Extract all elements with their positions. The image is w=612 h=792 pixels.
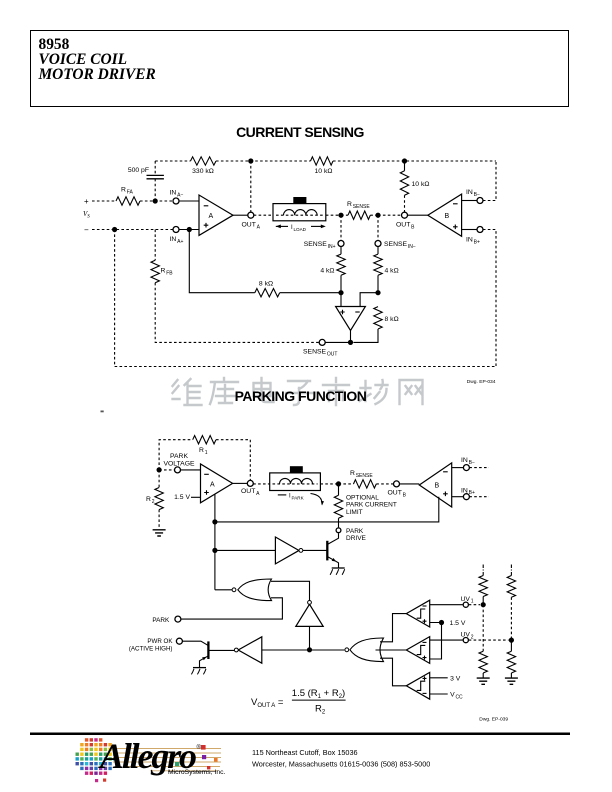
svg-text:4 kΩ: 4 kΩ: [385, 268, 399, 275]
op-amp B2: [419, 463, 451, 507]
title box: [30, 30, 569, 107]
ground divider right: [505, 678, 518, 684]
svg-text:OUTA: OUTA: [242, 222, 261, 231]
terminal IN_B+: [466, 227, 483, 246]
ground divider left: [477, 678, 490, 684]
node sense amp minus: [375, 290, 380, 295]
formula Vout: [251, 688, 346, 716]
Allegro logo mosaic: [76, 738, 117, 782]
wire to opamp A2 minus: [180, 469, 200, 471]
svg-text:Dwg. EP-039: Dwg. EP-039: [479, 717, 508, 723]
svg-text:1.5 V: 1.5 V: [450, 620, 466, 627]
terminal OUT_A: [242, 212, 261, 230]
svg-text:A: A: [210, 481, 215, 488]
svg-text:RSENSE: RSENSE: [347, 201, 370, 210]
wire load to limit node: [320, 481, 341, 486]
terminal OUT_B2: [388, 481, 407, 499]
resistor 8 k&#937; feedback: [353, 307, 398, 343]
wire INA- to opamp: [179, 200, 199, 202]
load inductor box: [273, 197, 326, 221]
svg-text:10 kΩ: 10 kΩ: [412, 181, 430, 188]
svg-text:PARK CURRENT: PARK CURRENT: [346, 502, 397, 509]
svg-text:Worcester, Massachusetts 01615: Worcester, Massachusetts 01615-0036 (508…: [252, 760, 430, 769]
svg-text:PWR OK: PWR OK: [147, 638, 173, 645]
resistor R_SENSE sensing: [341, 201, 378, 219]
svg-text:500 pF: 500 pF: [128, 167, 149, 174]
resistor 4 k&#937; right: [374, 246, 399, 292]
buffer up: [296, 601, 323, 627]
svg-text:A: A: [209, 213, 214, 220]
svg-text:4 kΩ: 4 kΩ: [320, 268, 334, 275]
terminal UV1: [461, 596, 474, 608]
svg-text:RSENSE: RSENSE: [350, 470, 373, 479]
label Dwg EP-039: [479, 717, 508, 723]
wire minus input jog: [360, 293, 378, 307]
terminal PARK: [152, 616, 181, 624]
wire plus input down: [340, 293, 342, 307]
wire inverter to Q1 base: [303, 549, 328, 551]
svg-text:PARK: PARK: [346, 528, 364, 535]
label I_LOAD with arrows: [276, 225, 326, 232]
label Dwg EP-034: [467, 379, 496, 385]
terminal PWR OK: [129, 638, 183, 652]
wire 8k to sense amp +: [280, 290, 344, 295]
footer rule: [30, 733, 570, 736]
svg-text:115 Northeast Cutoff, Box 1503: 115 Northeast Cutoff, Box 15036: [252, 748, 358, 757]
comparator UV3: [406, 672, 429, 699]
heading PARKING FUNCTION: [0, 388, 601, 404]
terminal OUT_B: [396, 212, 415, 230]
svg-text:INA+: INA+: [170, 236, 184, 245]
svg-text:VOUT A =: VOUT A =: [251, 697, 284, 709]
wire to OUT_B: [378, 214, 402, 216]
watermark weiku.com: [173, 378, 423, 405]
node sense right: [375, 213, 380, 218]
wire bottom rail: [115, 366, 496, 368]
wire 3V input: [430, 675, 461, 682]
title text 8958: [39, 37, 156, 83]
svg-text:RFA: RFA: [121, 187, 134, 196]
svg-text:OUTB: OUTB: [388, 490, 407, 499]
svg-text:−: −: [84, 226, 89, 235]
svg-text:OUTB: OUTB: [396, 222, 415, 231]
wire UV1 input: [430, 604, 463, 606]
wire OUTA feedback up: [250, 161, 252, 212]
svg-text:RFB: RFB: [161, 268, 174, 277]
terminal IN_B+2: [461, 487, 475, 499]
resistor R_1 feedback: [159, 436, 250, 481]
terminal SENSE_IN-: [375, 215, 416, 250]
wire to inverter V1: [215, 549, 276, 551]
wire UV2 dashed: [469, 639, 509, 641]
wire top rail left: [155, 160, 190, 162]
logo scattered squares: [175, 745, 218, 769]
resistor R_FA: [116, 187, 140, 206]
svg-text:®: ®: [197, 744, 202, 751]
wire B2 plus down to 1.5V line: [215, 497, 439, 522]
svg-text:OPTIONAL: OPTIONAL: [346, 495, 379, 502]
svg-text:VS: VS: [83, 210, 90, 219]
svg-text:1.5 (R1 + R2): 1.5 (R1 + R2): [292, 688, 345, 700]
svg-text:INB+: INB+: [461, 487, 475, 496]
svg-text:3 V: 3 V: [450, 675, 461, 682]
svg-text:SENSEOUT: SENSEOUT: [303, 349, 337, 358]
svg-text:IPARK: IPARK: [289, 494, 305, 501]
svg-text:R2: R2: [315, 704, 326, 716]
svg-text:MicroSystems, Inc.: MicroSystems, Inc.: [168, 769, 226, 776]
resistor R_2: [146, 470, 163, 529]
svg-text:LIMIT: LIMIT: [346, 509, 363, 516]
node UV2 divider: [509, 638, 514, 643]
node Vs- terminal: [84, 226, 89, 235]
wire OUTB2 to opamp B2: [399, 483, 419, 485]
transistor Q2: [200, 641, 209, 667]
wire RFA to node INA-: [140, 198, 173, 203]
stray mark: [101, 411, 104, 413]
wire UV2 input: [430, 639, 463, 641]
terminal PARK DRIVE: [336, 528, 366, 542]
label I_PARK with arrow: [278, 494, 324, 506]
wire opampB minus input: [462, 200, 478, 202]
ground below Q1: [330, 568, 345, 575]
svg-text:R1: R1: [199, 447, 208, 456]
resistor R_FB feedback: [151, 230, 319, 343]
divider resistor lower right: [507, 640, 515, 678]
svg-text:1.5 V: 1.5 V: [174, 494, 190, 501]
svg-text:8 kΩ: 8 kΩ: [259, 281, 273, 288]
transistor Q1: [327, 533, 338, 568]
svg-text:(ACTIVE HIGH): (ACTIVE HIGH): [129, 645, 173, 652]
node Vs label: [83, 210, 90, 219]
wire top rail mid: [216, 158, 311, 163]
op-amp B: [428, 194, 462, 236]
comparator UV1: [406, 600, 429, 627]
wire INB- to rail corner: [483, 161, 496, 201]
svg-text:DRIVE: DRIVE: [346, 535, 367, 542]
resistor 10 k&#937; vertical: [400, 161, 429, 212]
wire Q2 collector: [208, 649, 234, 651]
wire 1.5V node down: [212, 495, 217, 590]
svg-text:PARK: PARK: [170, 453, 188, 460]
svg-text:ILOAD: ILOAD: [291, 225, 307, 232]
wire left edge: [114, 230, 116, 367]
terminal OUT_A2: [241, 480, 260, 497]
wire B2 plus to INB+: [452, 496, 464, 498]
svg-text:INA−: INA−: [170, 190, 184, 199]
label 1.5V: [174, 494, 190, 501]
terminal SENSE_IN+: [304, 215, 344, 250]
load inductor box 2: [270, 466, 321, 490]
node park voltage junction: [157, 467, 162, 472]
svg-text:8 kΩ: 8 kΩ: [385, 316, 399, 323]
wire top rail right: [333, 158, 496, 163]
wire opamp A output: [233, 214, 248, 216]
resistor 4 k&#937; left: [320, 246, 345, 292]
terminal IN_A-: [170, 190, 184, 205]
comparator UV2: [406, 637, 429, 664]
wire PWROK to Q2: [182, 641, 208, 645]
terminal IN_A+: [170, 227, 184, 245]
resistor 10 k&#937; top: [311, 157, 334, 175]
svg-text:Dwg. EP-034: Dwg. EP-034: [467, 379, 496, 385]
svg-text:10 kΩ: 10 kΩ: [315, 168, 333, 175]
svg-text:INB−: INB−: [461, 457, 475, 466]
svg-text:B: B: [445, 213, 450, 220]
footer address: [252, 748, 430, 769]
OR gate 3-input: [345, 638, 384, 662]
wire opampB plus input: [462, 229, 478, 231]
wire INA+ to opamp: [179, 227, 199, 232]
wire NOR input top: [271, 581, 310, 600]
wire opamp A2 out: [233, 482, 248, 484]
wire NOR output: [215, 589, 232, 591]
svg-text:OUTA: OUTA: [241, 488, 260, 497]
wire B2 minus to INB-: [452, 467, 464, 469]
divider resistor upper left: [479, 565, 487, 605]
wire load to RSENSE node: [326, 213, 344, 218]
node UV1 divider: [481, 602, 486, 607]
wire Vs+ to RFA: [92, 200, 116, 202]
ground below Q2: [191, 668, 206, 675]
resistor R_SENSE park: [339, 470, 394, 488]
wire OUTA2 to load: [253, 483, 270, 485]
svg-text:R2: R2: [146, 496, 155, 505]
logo gold lines: [113, 749, 221, 771]
net 1.5V comparators: [430, 620, 466, 659]
terminal IN_B-: [466, 189, 483, 204]
wire INB+ down right edge: [483, 230, 496, 367]
resistor OPTIONAL PARK CURRENT LIMIT: [334, 484, 397, 528]
wire OUTB to opamp B: [407, 214, 427, 216]
svg-text:B: B: [435, 483, 440, 490]
terminal SENSE_OUT: [303, 339, 337, 357]
divider resistor upper right: [507, 565, 515, 641]
svg-text:SENSEIN+: SENSEIN+: [304, 241, 336, 250]
op-amp sense (down): [336, 307, 366, 331]
wire INB-2 dashes: [469, 467, 489, 469]
svg-text:INB+: INB+: [466, 237, 480, 246]
svg-text:INB−: INB−: [466, 189, 480, 198]
Allegro logo text: [98, 736, 226, 776]
resistor 8 k&#937; horizontal: [255, 281, 280, 297]
op-amp A2: [201, 464, 233, 503]
wire NOR input bottom: [181, 598, 283, 619]
wire INA+ down to 8k: [189, 230, 255, 293]
capacitor 500 pF: [128, 161, 164, 201]
NOR gate: [232, 579, 271, 601]
wire VCC input: [430, 692, 463, 701]
wire 1.5V to opamp: [191, 496, 201, 498]
wire comp1 out to OR: [380, 614, 406, 642]
terminal UV2: [461, 631, 474, 642]
heading CURRENT SENSING: [0, 124, 600, 140]
svg-text:SENSEIN−: SENSEIN−: [384, 241, 416, 250]
terminal PARK VOLTAGE: [159, 467, 180, 473]
wire inverter input: [262, 649, 311, 651]
svg-text:VOLTAGE: VOLTAGE: [163, 461, 195, 468]
node Vs+ terminal: [84, 197, 89, 206]
wire sense amp output: [325, 331, 353, 346]
label PARK VOLTAGE: [163, 453, 195, 468]
wire INB+2 dashes: [469, 496, 489, 498]
wire buffer input: [307, 626, 312, 652]
ground below R_2: [153, 530, 166, 536]
svg-text:PARK: PARK: [152, 617, 170, 624]
svg-text:VCC: VCC: [450, 692, 463, 701]
svg-text:330 kΩ: 330 kΩ: [192, 168, 214, 175]
divider resistor lower left: [479, 605, 487, 678]
svg-text:+: +: [84, 197, 89, 206]
resistor 330 k&#937;: [191, 157, 216, 175]
inverter left-facing: [234, 637, 261, 663]
wire comp2 out to OR: [376, 649, 407, 651]
op-amp A: [199, 195, 233, 235]
inverter park driver: [275, 537, 302, 564]
wire comp3 out to OR: [380, 658, 406, 686]
wire minus rail Vs- to INA+: [92, 227, 173, 232]
wire UV1 dashed: [469, 604, 480, 606]
wire junction to OR gate: [310, 649, 344, 651]
terminal IN_B-2: [461, 457, 475, 471]
wire OUTA to load: [254, 214, 273, 216]
